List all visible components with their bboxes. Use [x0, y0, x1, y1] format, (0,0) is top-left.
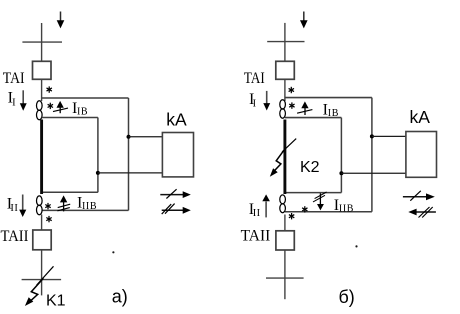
polarity asterisk TAII primary (а) [46, 216, 51, 222]
wire TAII to busbar II (б) [284, 250, 286, 299]
signal arrow 2 left (б) [408, 207, 436, 218]
wire node2 to kA (а) [98, 172, 162, 174]
busbar II (б) [266, 277, 304, 279]
polarity asterisk TAI primary (а) [47, 86, 52, 92]
svg-text:IIB: IIB [339, 204, 354, 215]
label I_IB (б) [323, 101, 339, 119]
fault slash K2 (б) [282, 139, 296, 152]
wire inner top (а) [42, 117, 98, 119]
polarity asterisk TAI secondary (б) [289, 102, 294, 108]
wire inner right (б) [340, 118, 342, 193]
polarity asterisk TAI secondary (а) [48, 103, 53, 109]
arrow I_IB up with slash (а) [53, 101, 68, 113]
polarity asterisk TAII secondary (а) [45, 203, 50, 209]
busbar I (б) [267, 41, 304, 43]
wire winding to TAII (а) [41, 215, 43, 231]
relay kA box (б) [406, 132, 437, 178]
current transformer TAII box (а) [33, 230, 51, 250]
arrow I_IIB up with double slash (а) [57, 195, 70, 211]
svg-text:I: I [253, 99, 257, 110]
label I_IIB (а) [77, 195, 97, 213]
svg-text:TAII: TAII [1, 228, 29, 245]
arrow I_IIB down with double slash (б) [313, 192, 327, 210]
signal arrow 1 (б) [403, 191, 435, 201]
label I_II (б) [249, 201, 261, 219]
label I_I (а) [8, 90, 17, 109]
svg-text:б): б) [339, 287, 355, 307]
svg-text:TAI: TAI [244, 70, 265, 87]
wire secondary outer right (б) [371, 98, 373, 212]
label I_IB (а) [72, 100, 88, 117]
junction node 2 (а) [96, 171, 100, 175]
arrow I_I down (а) [20, 90, 27, 111]
svg-text:IIB: IIB [82, 201, 97, 212]
wire node2 to kA (б) [341, 172, 406, 174]
fault lightning K1 (а) [25, 278, 44, 306]
TAI secondary winding (б) [280, 100, 286, 119]
wire inner bottom (а) [42, 191, 98, 193]
svg-text:II: II [10, 203, 18, 214]
arrow I_I down (б) [263, 91, 270, 111]
signal arrow 1 (а) [160, 189, 191, 198]
svg-text:TAII: TAII [241, 228, 271, 245]
wire node1 to kA (а) [129, 136, 163, 138]
wire secondary outer bottom (а) [42, 209, 129, 211]
signal arrow 2 (а) [162, 204, 191, 215]
polarity asterisk TAI primary (б) [289, 87, 294, 93]
polarity asterisk TAII secondary (б) [302, 206, 307, 212]
wire inner bottom (б) [285, 192, 342, 194]
svg-text:kA: kA [166, 110, 187, 130]
junction node 1 (б) [370, 134, 374, 138]
arrow I_IB up with slash (б) [297, 101, 312, 115]
fault slash (а) [37, 266, 54, 285]
relay kA box (а) [162, 133, 193, 177]
feeder arrow top (а) [57, 12, 65, 29]
current transformer TAI box (б) [276, 61, 295, 79]
speck dot (а) [112, 251, 114, 253]
feeder line top (а) [41, 23, 43, 61]
TAII secondary winding (б) [280, 195, 286, 213]
wire secondary outer right (а) [128, 98, 130, 210]
svg-text:K1: K1 [46, 292, 66, 309]
polarity asterisk TAII primary (б) [289, 213, 294, 219]
feeder arrow top (б) [300, 12, 308, 29]
label I_I (б) [249, 91, 257, 110]
feeder line top (б) [284, 23, 286, 61]
junction node 2 (б) [339, 171, 343, 175]
TAI secondary winding (а) [37, 101, 43, 120]
arrow I_II down (а) [19, 195, 26, 218]
thick primary segment (а) [40, 120, 43, 195]
busbar I (а) [22, 41, 62, 43]
busbar II (а) [22, 279, 62, 281]
arrow I_II up (б) [262, 194, 270, 217]
wire inner right (а) [97, 118, 99, 193]
TAII secondary winding (а) [37, 196, 43, 215]
svg-text:TAI: TAI [3, 70, 25, 87]
svg-text:II: II [253, 208, 261, 219]
wire TAI to winding (б) [284, 79, 286, 101]
current transformer TAII box (б) [276, 231, 294, 250]
label I_IIB (б) [334, 197, 354, 215]
fault lightning K2 (б) [270, 148, 286, 177]
svg-text:I: I [12, 97, 16, 108]
wire secondary outer top (а) [42, 97, 129, 99]
wire TAI to winding (а) [41, 79, 43, 101]
wire winding to TAII (б) [284, 215, 286, 231]
svg-text:IB: IB [77, 107, 88, 118]
wire inner top (б) [285, 117, 342, 119]
wire node1 to kA (б) [372, 135, 406, 137]
wire TAII to busbar II (а) [41, 250, 43, 296]
wire secondary outer top (б) [285, 97, 372, 99]
current transformer TAI box (а) [33, 61, 52, 79]
junction node 1 (а) [127, 135, 131, 139]
wire secondary outer bottom (б) [285, 211, 372, 213]
svg-text:K2: K2 [300, 159, 320, 176]
label I_II (а) [7, 196, 19, 214]
svg-text:kA: kA [410, 107, 431, 127]
thick primary segment (б) [283, 120, 286, 195]
speck dot (б) [355, 245, 357, 247]
svg-text:а): а) [112, 286, 128, 306]
